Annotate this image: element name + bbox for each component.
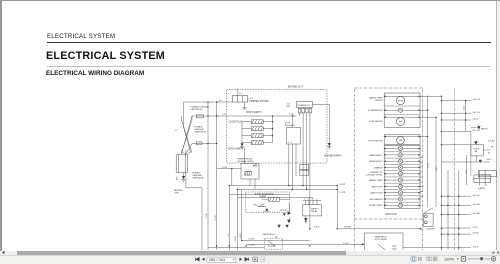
svg-text:1.25 L: 1.25 L (428, 163, 430, 168)
svg-text:0.45 Y/G: 0.45 Y/G (473, 112, 481, 114)
svg-text:0.45 WG: 0.45 WG (473, 204, 481, 206)
svg-text:1.0 r: 1.0 r (227, 233, 230, 237)
svg-text:1.25 L: 1.25 L (464, 106, 466, 111)
svg-text:UAW FILTER: UAW FILTER (370, 192, 383, 195)
svg-text:BODY EARTH: BODY EARTH (247, 111, 262, 114)
svg-text:1.25 B: 1.25 B (473, 246, 479, 248)
svg-text:1.0: 1.0 (175, 130, 178, 132)
svg-text:METER: METER (375, 100, 383, 102)
svg-text:FM: FM (399, 121, 402, 123)
svg-text:0.50 W: 0.50 W (473, 233, 479, 235)
svg-text:100%: 100% (444, 257, 454, 262)
svg-text:1: 1 (304, 199, 305, 201)
svg-text:CARTRIDGE: CARTRIDGE (194, 130, 206, 133)
svg-text:0.85 B: 0.85 B (314, 226, 320, 228)
svg-text:ENGINE A/C T: ENGINE A/C T (288, 85, 304, 88)
svg-text:STOP RELAY: STOP RELAY (375, 238, 388, 241)
svg-text:WTM: WTM (398, 100, 403, 102)
svg-text:1.0: 1.0 (239, 93, 242, 95)
svg-text:MONITOR: MONITOR (386, 214, 397, 216)
svg-text:1.25 BL: 1.25 BL (248, 239, 255, 241)
svg-text:DETECTOR: DETECTOR (480, 174, 491, 176)
svg-text:CARTRIDGE: CARTRIDGE (191, 108, 203, 111)
svg-text:0.45 AV: 0.45 AV (488, 140, 495, 143)
svg-text:CHARGE: CHARGE (374, 166, 384, 169)
svg-text:1.25 W: 1.25 W (339, 192, 345, 194)
svg-text:0.85 B/Y: 0.85 B/Y (344, 226, 352, 228)
svg-text:FUEL METER: FUEL METER (369, 121, 383, 123)
svg-text:SPEED SHIFT: SPEED SHIFT (369, 205, 383, 207)
svg-text:WATER TEMP: WATER TEMP (369, 179, 383, 182)
svg-text:1.25 B: 1.25 B (473, 119, 479, 121)
svg-text:ENGINE EARTH: ENGINE EARTH (324, 155, 342, 158)
svg-text:0.45 YG: 0.45 YG (473, 195, 480, 197)
svg-text:AIR FILTER: AIR FILTER (371, 185, 383, 188)
svg-text:1.25 B: 1.25 B (343, 243, 349, 245)
svg-text:DIODE: DIODE (263, 211, 270, 213)
svg-text:0.45 G/B: 0.45 G/B (473, 130, 481, 132)
svg-text:BATTERY: BATTERY (174, 189, 184, 192)
svg-text:1.25 B: 1.25 B (235, 236, 237, 242)
svg-text:CARTRIDGE: CARTRIDGE (192, 177, 204, 180)
svg-text:AIR HEATER: AIR HEATER (370, 198, 383, 201)
svg-text:RELAY: RELAY (311, 210, 318, 213)
svg-text:1.25 W: 1.25 W (339, 184, 345, 186)
svg-text:BUZZER: BUZZER (427, 228, 436, 230)
svg-text:GLOW PLUG: GLOW PLUG (229, 122, 243, 124)
svg-text:HOUR METER: HOUR METER (369, 140, 383, 142)
svg-text:1.25 BL: 1.25 BL (248, 245, 255, 247)
svg-text:MC1: MC1 (254, 204, 258, 206)
svg-text:385 / 563: 385 / 563 (209, 257, 225, 262)
svg-text:EMERGENCY: EMERGENCY (369, 161, 383, 163)
svg-text:0.45 r: 0.45 r (487, 158, 492, 161)
svg-text:1.25 r: 1.25 r (465, 169, 468, 174)
svg-text:HM: HM (399, 140, 402, 142)
svg-text:GENERATOR: GENERATOR (297, 104, 310, 107)
svg-text:1.25 B: 1.25 B (215, 215, 217, 221)
svg-text:DIODE: DIODE (280, 210, 287, 212)
svg-text:0.50 P: 0.50 P (473, 227, 479, 229)
svg-text:NGL: NGL (286, 106, 290, 108)
svg-text:MC: MC (491, 147, 495, 149)
svg-text:SOLENOID: SOLENOID (285, 125, 296, 127)
svg-text:1.0 W: 1.0 W (222, 167, 227, 169)
svg-text:0.45 Y/R: 0.45 Y/R (473, 99, 481, 101)
svg-text:1.0: 1.0 (250, 97, 253, 99)
svg-text:ILLUMINATION: ILLUMINATION (368, 109, 383, 112)
svg-text:3: 3 (308, 199, 309, 201)
svg-text:0.45 WB: 0.45 WB (473, 213, 481, 215)
svg-text:BODY EARTH: BODY EARTH (228, 148, 243, 151)
svg-text:(NORMAL OPEN): (NORMAL OPEN) (237, 160, 253, 163)
svg-text:EARTH: EARTH (481, 128, 488, 131)
svg-text:0.85 r: 0.85 r (435, 166, 438, 171)
svg-text:MC: MC (275, 237, 279, 239)
svg-text:W: W (488, 153, 490, 155)
svg-text:EARTH: EARTH (478, 187, 485, 190)
svg-text:EMERGENCY: EMERGENCY (369, 155, 383, 157)
svg-text:1.0 W: 1.0 W (289, 114, 294, 116)
svg-text:STARTER MOTOR: STARTER MOTOR (249, 100, 269, 103)
svg-text:(12V): (12V) (174, 192, 179, 194)
svg-text:1.0 B: 1.0 B (206, 213, 208, 218)
svg-text:TIMER: TIMER (259, 196, 266, 198)
svg-text:1.25: 1.25 (222, 114, 226, 116)
svg-text:1.45 B: 1.45 B (240, 233, 242, 239)
svg-text:B50: B50 (177, 177, 179, 180)
svg-text:1 – 3: 1 – 3 (288, 142, 292, 144)
svg-text:EMERGENCY: EMERGENCY (263, 234, 277, 236)
svg-text:COOLANT LEVEL: COOLANT LEVEL (365, 174, 383, 177)
svg-text:1.0: 1.0 (219, 100, 222, 102)
